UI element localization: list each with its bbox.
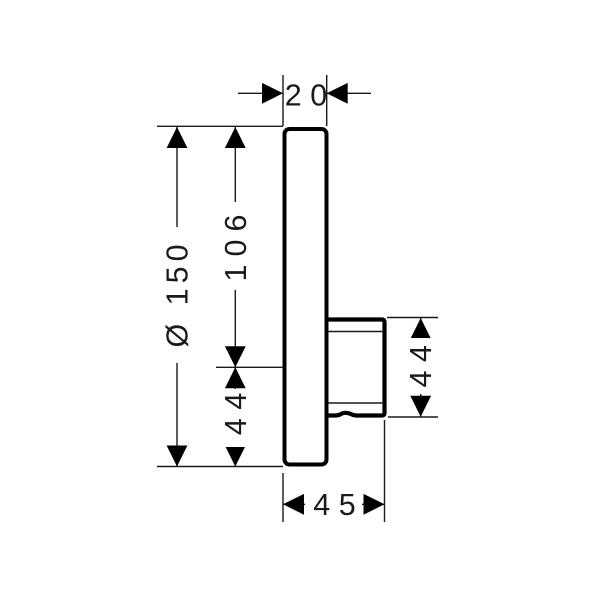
dimension 45 line <box>283 494 385 515</box>
label 20 <box>285 79 327 113</box>
valve body box <box>328 320 385 416</box>
dimension 44 right extension lines <box>387 318 438 418</box>
svg-text:106: 106 <box>219 207 253 282</box>
dimension 44 right line <box>410 318 431 417</box>
svg-text:4 4: 4 4 <box>219 393 253 435</box>
label 45 <box>305 488 362 522</box>
dimension 20 extension lines <box>283 75 327 126</box>
dimension 44 left line <box>225 367 246 466</box>
dimension Ø150 line <box>167 127 188 467</box>
valve body inner line top <box>328 331 385 333</box>
extension line top (plate top) <box>157 125 283 127</box>
extension line mid (106/44 split) <box>216 366 283 368</box>
svg-text:4 5: 4 5 <box>313 488 355 522</box>
extension line bottom (plate bottom) <box>157 466 283 468</box>
dimension 20 leader lines and arrows <box>238 83 371 104</box>
label Ø150 <box>161 227 195 363</box>
svg-text:Ø 150: Ø 150 <box>161 239 195 347</box>
plate outline (escutcheon side view) <box>285 129 327 465</box>
svg-text:2 0: 2 0 <box>285 79 327 113</box>
label 44 left <box>219 389 253 447</box>
svg-text:4 4: 4 4 <box>404 345 438 387</box>
dimension 45 extension lines <box>283 420 385 522</box>
label 106 <box>219 202 253 290</box>
label 44 right <box>404 338 438 394</box>
valve body inner line bottom <box>328 402 385 404</box>
dimension 106 line <box>225 127 246 367</box>
